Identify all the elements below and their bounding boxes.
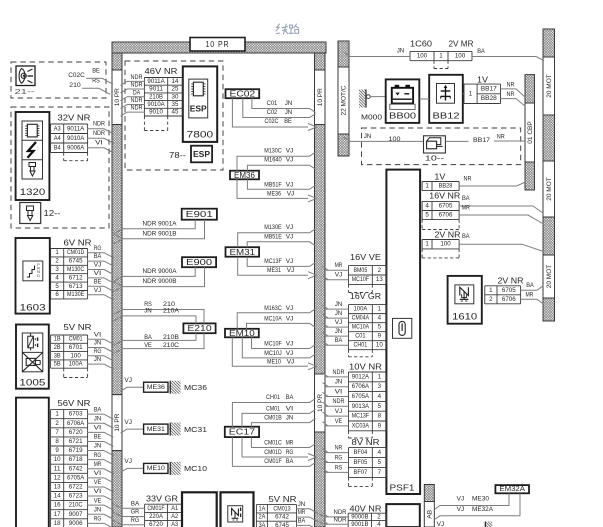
svg-text:BB28: BB28	[439, 183, 453, 190]
svg-text:6706A: 6706A	[67, 420, 85, 427]
svg-text:1A: 1A	[258, 505, 266, 512]
svg-text:MC10A: MC10A	[264, 316, 282, 323]
svg-text:VJ: VJ	[457, 506, 465, 513]
svg-text:2: 2	[55, 420, 59, 427]
svg-text:M000: M000	[361, 113, 382, 122]
svg-text:A1: A1	[171, 505, 178, 512]
svg-text:1: 1	[378, 373, 382, 380]
svg-text:E210: E210	[187, 324, 212, 333]
svg-text:MR: MR	[286, 439, 294, 446]
svg-text:6706: 6706	[439, 212, 453, 219]
svg-text:CM01: CM01	[69, 336, 83, 343]
svg-text:VE: VE	[94, 497, 102, 504]
svg-text:JN: JN	[335, 310, 343, 317]
svg-text:2: 2	[55, 258, 59, 265]
svg-text:8V NR: 8V NR	[352, 438, 380, 447]
svg-text:6719: 6719	[69, 447, 83, 454]
svg-text:210C: 210C	[163, 342, 179, 349]
svg-text:VI: VI	[94, 270, 102, 277]
svg-text:9011A: 9011A	[67, 125, 85, 132]
svg-text:A3: A3	[54, 125, 61, 132]
svg-text:6742: 6742	[275, 514, 289, 521]
svg-text:CM01: CM01	[266, 405, 280, 412]
svg-text:NDR: NDR	[333, 398, 345, 405]
svg-text:6742: 6742	[69, 465, 83, 472]
svg-text:10: 10	[376, 342, 383, 349]
svg-text:VJ: VJ	[335, 408, 343, 415]
svg-text:25: 25	[172, 86, 179, 93]
svg-text:VJ: VJ	[286, 341, 294, 348]
svg-text:9013A: 9013A	[352, 403, 370, 410]
svg-text:EC02: EC02	[230, 90, 256, 99]
svg-text:PSF1: PSF1	[390, 483, 416, 492]
svg-text:100: 100	[440, 241, 451, 248]
svg-text:JN: JN	[94, 506, 102, 513]
svg-text:RG: RG	[94, 245, 102, 252]
svg-text:7: 7	[55, 429, 59, 436]
svg-text:2V MR: 2V MR	[449, 40, 474, 49]
svg-text:JN: JN	[94, 356, 102, 363]
svg-text:NDR: NDR	[93, 121, 105, 128]
svg-text:9010: 9010	[149, 109, 163, 116]
svg-text:33V GR: 33V GR	[146, 495, 178, 504]
svg-text:E901: E901	[186, 210, 214, 219]
svg-text:RG: RG	[94, 515, 102, 522]
svg-text:CM01F: CM01F	[264, 458, 282, 465]
svg-text:MR: MR	[462, 204, 470, 211]
svg-text:M1640: M1640	[264, 157, 282, 164]
svg-text:1: 1	[425, 241, 429, 248]
svg-text:20 MOT: 20 MOT	[546, 74, 553, 98]
svg-text:NDR: NDR	[334, 509, 347, 516]
svg-text:1610: 1610	[452, 312, 477, 322]
svg-text:M130C: M130C	[67, 266, 85, 273]
svg-text:A4: A4	[54, 135, 61, 142]
svg-text:C02C: C02C	[265, 118, 279, 125]
svg-text:40V NR: 40V NR	[350, 505, 382, 514]
svg-text:10 PR: 10 PR	[114, 413, 121, 431]
svg-text:6705A: 6705A	[67, 474, 85, 481]
svg-text:1: 1	[55, 411, 59, 418]
svg-text:56V NR: 56V NR	[58, 399, 91, 408]
svg-text:1: 1	[489, 287, 493, 294]
svg-text:210: 210	[69, 82, 81, 89]
svg-text:ME10: ME10	[267, 358, 281, 365]
svg-text:BA: BA	[462, 233, 470, 240]
svg-text:BE: BE	[94, 278, 102, 285]
svg-text:6718: 6718	[69, 456, 83, 463]
svg-text:MC10F: MC10F	[264, 341, 282, 348]
svg-text:M130E: M130E	[264, 224, 282, 231]
svg-text:210B: 210B	[149, 93, 163, 100]
svg-text:A3: A3	[171, 521, 178, 527]
svg-text:BE: BE	[284, 118, 292, 125]
svg-text:13: 13	[376, 276, 383, 283]
svg-text:9010A: 9010A	[67, 135, 85, 142]
svg-text:VJ: VJ	[287, 358, 295, 365]
svg-text:1: 1	[469, 90, 473, 97]
svg-text:EC17: EC17	[229, 428, 256, 437]
svg-text:1: 1	[55, 249, 59, 256]
svg-text:JN: JN	[286, 415, 294, 422]
svg-text:JN: JN	[335, 328, 343, 335]
svg-text:VI: VI	[94, 488, 102, 495]
svg-text:VJ: VJ	[335, 319, 343, 326]
svg-text:16V GR: 16V GR	[350, 292, 381, 301]
svg-text:5B: 5B	[54, 361, 61, 368]
svg-text:2A: 2A	[258, 514, 266, 521]
svg-text:3: 3	[378, 383, 382, 390]
svg-text:13: 13	[54, 483, 61, 490]
svg-text:NDR 9000A: NDR 9000A	[143, 268, 178, 275]
svg-text:MR: MR	[526, 291, 534, 298]
svg-text:1B: 1B	[54, 336, 61, 343]
svg-text:NDR 9001A: NDR 9001A	[143, 220, 178, 227]
svg-text:4: 4	[378, 315, 382, 322]
svg-text:5: 5	[425, 212, 429, 219]
svg-text:78--: 78--	[169, 151, 186, 160]
svg-text:10: 10	[54, 456, 61, 463]
svg-text:E900: E900	[186, 258, 213, 267]
svg-text:MR: MR	[335, 262, 343, 269]
svg-text:6723: 6723	[69, 493, 83, 500]
svg-text:VI: VI	[95, 140, 103, 147]
svg-text:10--: 10--	[425, 154, 445, 163]
svg-text:32V NR: 32V NR	[58, 114, 91, 123]
svg-text:NR: NR	[335, 444, 343, 451]
svg-text:100A: 100A	[69, 361, 84, 368]
svg-text:CM01F: CM01F	[147, 505, 164, 512]
svg-text:NDR 9001B: NDR 9001B	[143, 230, 178, 237]
svg-text:2: 2	[489, 296, 493, 303]
svg-text:4: 4	[378, 393, 382, 400]
svg-text:6713: 6713	[69, 283, 83, 290]
svg-text:VJ: VJ	[124, 458, 132, 465]
svg-text:NR: NR	[507, 81, 515, 88]
svg-text:NDR: NDR	[93, 130, 105, 137]
svg-text:BA: BA	[144, 334, 152, 341]
svg-text:VI: VI	[335, 388, 343, 395]
svg-text:6703: 6703	[69, 411, 83, 418]
svg-text:9: 9	[55, 447, 59, 454]
svg-text:100: 100	[455, 53, 466, 60]
svg-text:BB17: BB17	[473, 137, 490, 144]
svg-text:9011: 9011	[149, 86, 163, 93]
svg-text:VJ: VJ	[286, 224, 294, 231]
svg-text:6706: 6706	[502, 296, 516, 303]
svg-text:MC13F: MC13F	[352, 413, 369, 420]
svg-text:VJ: VJ	[286, 305, 294, 312]
svg-text:21--: 21--	[15, 87, 36, 96]
svg-text:JN: JN	[298, 501, 306, 508]
svg-text:6701: 6701	[69, 344, 83, 351]
svg-text:NDR: NDR	[131, 97, 143, 104]
svg-text:100: 100	[70, 352, 81, 359]
svg-text:7: 7	[378, 469, 382, 476]
svg-text:EM32A: EM32A	[499, 486, 525, 493]
svg-text:JN: JN	[285, 100, 293, 107]
svg-text:9012A: 9012A	[352, 373, 370, 380]
svg-text:DA: DA	[133, 89, 141, 96]
svg-text:RS: RS	[335, 464, 343, 471]
svg-text:VJ: VJ	[286, 157, 294, 164]
svg-text:9010A: 9010A	[147, 101, 165, 108]
svg-text:10V NR: 10V NR	[349, 363, 382, 372]
svg-text:CM01D: CM01D	[264, 449, 282, 456]
svg-text:NR: NR	[507, 91, 515, 98]
svg-text:20 MOT: 20 MOT	[546, 177, 553, 201]
svg-text:NDR: NDR	[334, 517, 347, 524]
svg-text:BA: BA	[286, 458, 294, 465]
svg-text:4: 4	[377, 521, 381, 527]
svg-text:VI: VI	[94, 424, 102, 431]
svg-text:10 PR: 10 PR	[317, 88, 324, 106]
svg-text:45: 45	[172, 109, 179, 116]
svg-text:BF04: BF04	[354, 449, 368, 456]
svg-text:JN: JN	[94, 443, 102, 450]
svg-text:BM05: BM05	[354, 267, 368, 274]
svg-text:NDR: NDR	[131, 82, 143, 89]
svg-text:ME10: ME10	[147, 465, 165, 472]
svg-text:16: 16	[54, 502, 61, 509]
svg-text:C01: C01	[267, 100, 278, 107]
svg-text:4: 4	[425, 202, 429, 209]
svg-text:35: 35	[172, 101, 179, 108]
svg-text:1320: 1320	[20, 187, 46, 197]
svg-text:VJ: VJ	[286, 181, 294, 188]
svg-text:CM04A: CM04A	[352, 315, 370, 322]
svg-text:3B: 3B	[54, 352, 61, 359]
svg-text:5: 5	[378, 459, 382, 466]
svg-text:VJ: VJ	[124, 419, 132, 426]
svg-text:MB51E: MB51E	[264, 234, 282, 241]
svg-text:JN: JN	[335, 301, 343, 308]
svg-text:10 PR: 10 PR	[114, 88, 121, 106]
svg-text:100A: 100A	[354, 306, 369, 313]
svg-text:MB51F: MB51F	[264, 181, 282, 188]
svg-text:5: 5	[55, 283, 59, 290]
svg-text:22 MOT/C: 22 MOT/C	[341, 85, 348, 115]
svg-text:100: 100	[417, 53, 428, 60]
svg-text:01 CBP: 01 CBP	[527, 121, 534, 143]
svg-text:9006A: 9006A	[67, 144, 85, 151]
svg-text:ESP: ESP	[190, 104, 207, 114]
svg-text:M130E: M130E	[67, 291, 84, 298]
svg-text:VE: VE	[335, 418, 343, 425]
svg-text:1V: 1V	[477, 76, 489, 85]
svg-text:JN: JN	[364, 133, 372, 140]
svg-text:C02: C02	[267, 109, 278, 116]
svg-text:JN: JN	[335, 379, 343, 386]
svg-text:1V: 1V	[434, 173, 446, 182]
svg-text:BE: BE	[94, 434, 102, 441]
svg-text:16V NR: 16V NR	[429, 192, 460, 201]
svg-text:6745: 6745	[69, 258, 83, 265]
svg-text:8: 8	[378, 413, 382, 420]
svg-text:A2: A2	[171, 513, 178, 520]
svg-text:C01: C01	[355, 333, 366, 340]
svg-text:3A: 3A	[258, 522, 266, 527]
svg-text:M163C: M163C	[264, 305, 282, 312]
svg-text:46V NR: 46V NR	[145, 67, 178, 76]
svg-text:BA: BA	[94, 253, 102, 260]
svg-text:BB12: BB12	[433, 111, 460, 121]
svg-text:1603: 1603	[20, 303, 46, 313]
svg-text:BB00: BB00	[389, 111, 416, 121]
svg-text:VJ: VJ	[286, 258, 294, 265]
svg-text:AB: AB	[426, 510, 433, 519]
svg-text:MC13F: MC13F	[264, 258, 282, 265]
svg-text:8: 8	[55, 438, 59, 445]
svg-text:2V NR: 2V NR	[435, 230, 461, 239]
svg-text:BB28: BB28	[481, 95, 498, 102]
svg-text:CH01: CH01	[354, 342, 368, 349]
svg-text:30: 30	[172, 93, 179, 100]
svg-text:12: 12	[54, 474, 61, 481]
svg-text:NR: NR	[464, 175, 472, 182]
svg-text:MC10A: MC10A	[352, 324, 370, 331]
svg-text:EM31: EM31	[230, 248, 256, 257]
svg-text:ME36: ME36	[267, 190, 281, 197]
svg-text:BF07: BF07	[354, 469, 368, 476]
svg-text:CH01: CH01	[266, 394, 280, 401]
svg-text:GR: GR	[131, 509, 140, 516]
svg-text:6706A: 6706A	[352, 383, 370, 390]
svg-text:BA: BA	[335, 337, 343, 344]
svg-text:BA: BA	[298, 517, 306, 524]
svg-text:6720: 6720	[69, 429, 83, 436]
svg-text:VJ: VJ	[286, 234, 294, 241]
svg-text:6705: 6705	[439, 202, 453, 209]
svg-text:9000B: 9000B	[351, 513, 368, 520]
svg-text:ME31: ME31	[267, 267, 281, 274]
svg-text:NDR 9000B: NDR 9000B	[143, 278, 178, 285]
svg-text:CM013: CM013	[273, 505, 291, 512]
svg-text:6722: 6722	[69, 483, 83, 490]
svg-text:BA: BA	[131, 500, 140, 507]
svg-text:6705: 6705	[502, 287, 516, 294]
svg-text:VJ: VJ	[335, 272, 343, 279]
svg-text:5: 5	[378, 403, 382, 410]
svg-text:BA: BA	[526, 282, 534, 289]
svg-text:VE: VE	[144, 342, 152, 349]
svg-text:BA: BA	[462, 195, 470, 202]
svg-text:CM01B: CM01B	[264, 415, 282, 422]
svg-text:6745: 6745	[275, 522, 289, 527]
svg-text:VJ: VJ	[286, 350, 294, 357]
svg-text:100: 100	[389, 136, 401, 143]
svg-text:MR: MR	[298, 509, 306, 516]
svg-text:JN: JN	[144, 307, 152, 314]
svg-text:6721: 6721	[69, 438, 83, 445]
svg-text:MC10F: MC10F	[352, 276, 369, 283]
svg-text:ME36: ME36	[147, 384, 165, 391]
svg-text:RG: RG	[94, 452, 102, 459]
svg-text:RG: RG	[131, 517, 140, 524]
svg-text:11: 11	[54, 465, 61, 472]
svg-text:VJ: VJ	[94, 262, 102, 269]
svg-text:20 MOT: 20 MOT	[546, 265, 553, 289]
svg-text:D: D	[37, 274, 40, 278]
svg-text:VJ: VJ	[287, 267, 295, 274]
svg-text:MC31: MC31	[184, 425, 207, 434]
svg-text:VI: VI	[94, 331, 102, 338]
svg-text:MC10: MC10	[184, 464, 207, 473]
svg-text:6V NR: 6V NR	[64, 239, 92, 248]
svg-text:5: 5	[378, 324, 382, 331]
svg-text:14: 14	[172, 78, 179, 85]
svg-text:VJ: VJ	[124, 377, 132, 384]
svg-text:220A: 220A	[149, 513, 164, 520]
svg-text:1C60: 1C60	[410, 40, 433, 49]
svg-text:M130C: M130C	[264, 147, 282, 154]
svg-text:BF05: BF05	[354, 459, 368, 466]
svg-text:ME32A: ME32A	[472, 506, 494, 513]
svg-text:RG: RG	[286, 449, 294, 456]
svg-text:210C: 210C	[69, 502, 83, 509]
svg-text:EM10: EM10	[229, 329, 255, 338]
svg-text:MC10J: MC10J	[264, 350, 282, 357]
svg-text:9: 9	[378, 422, 382, 429]
svg-text:9011A: 9011A	[147, 78, 165, 85]
svg-text:VJ: VJ	[437, 521, 445, 527]
svg-text:ESP: ESP	[193, 149, 210, 159]
svg-text:NDR: NDR	[131, 74, 143, 81]
svg-text:16V VE: 16V VE	[350, 253, 381, 262]
svg-text:9007: 9007	[69, 511, 83, 518]
svg-text:XC03A: XC03A	[352, 422, 370, 429]
svg-text:1: 1	[378, 306, 382, 313]
svg-text:4: 4	[378, 449, 382, 456]
svg-text:6712: 6712	[69, 274, 83, 281]
svg-text:BA: BA	[477, 48, 485, 55]
svg-text:RG: RG	[94, 348, 102, 355]
svg-text:6705A: 6705A	[352, 393, 370, 400]
svg-text:VJ: VJ	[94, 287, 102, 294]
svg-text:BE: BE	[92, 67, 100, 74]
svg-text:14: 14	[54, 493, 61, 500]
svg-text:VI: VI	[286, 405, 294, 412]
svg-text:17: 17	[54, 511, 61, 518]
svg-text:VJ: VJ	[286, 316, 294, 323]
svg-text:B4: B4	[54, 144, 61, 151]
svg-text:NDR: NDR	[131, 105, 143, 112]
svg-text:BA: BA	[286, 394, 294, 401]
svg-text:CM01C: CM01C	[264, 439, 282, 446]
svg-text:2: 2	[378, 267, 382, 274]
svg-text:MC36: MC36	[184, 383, 207, 392]
svg-text:VE: VE	[94, 479, 102, 486]
svg-text:10 PR: 10 PR	[206, 40, 230, 49]
svg-text:1: 1	[439, 53, 443, 60]
svg-text:BA: BA	[94, 406, 102, 413]
svg-text:C02C: C02C	[68, 72, 85, 79]
svg-text:1: 1	[425, 183, 429, 190]
svg-text:ME31: ME31	[147, 426, 165, 433]
svg-text:VJ: VJ	[287, 190, 295, 197]
svg-text:JN: JN	[94, 340, 102, 347]
svg-text:VJ: VJ	[286, 147, 294, 154]
svg-text:NDR: NDR	[333, 369, 345, 376]
svg-text:6720: 6720	[149, 521, 163, 527]
svg-text:VJ: VJ	[457, 496, 465, 503]
svg-text:BB17: BB17	[481, 85, 498, 92]
svg-text:6: 6	[55, 291, 59, 298]
svg-text:ME30: ME30	[472, 496, 489, 503]
svg-text:1005: 1005	[19, 378, 45, 388]
svg-text:3: 3	[55, 266, 59, 273]
svg-text:12--: 12--	[44, 209, 61, 218]
